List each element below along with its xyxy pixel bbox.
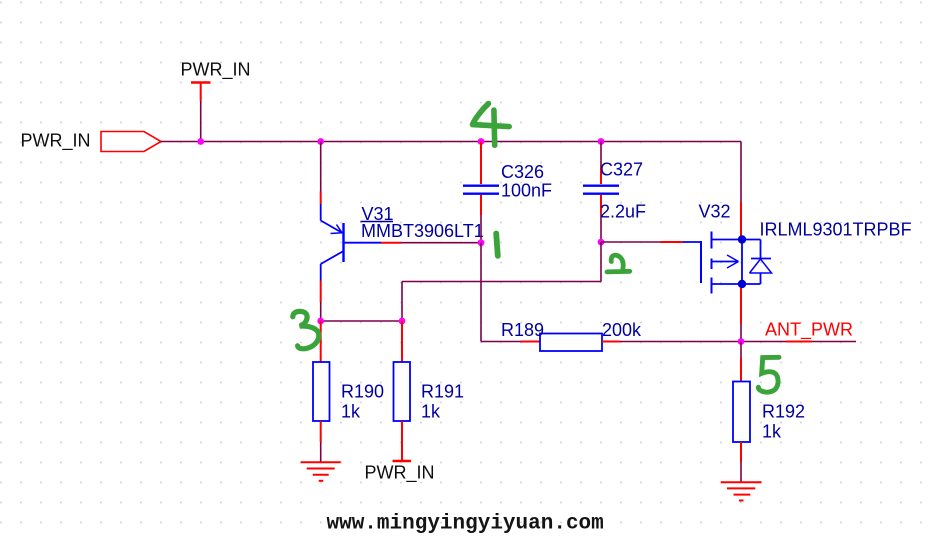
annotation digit 1: [496, 234, 498, 256]
node bus junction 3: [478, 138, 485, 145]
wire R192 to ground: [740, 462, 742, 482]
node B junction (C327 / gate / feedback): [598, 239, 605, 246]
resistor R192: [733, 342, 750, 463]
wire ANT_PWR net: [741, 341, 856, 343]
wire R190 to ground: [320, 442, 322, 462]
capacitor C327: [583, 142, 619, 243]
annotation digit 3: [293, 311, 319, 348]
wire node B down and left: [402, 242, 601, 321]
port PWR_IN (sheet entry, left): [21, 131, 162, 152]
wire bus to V31 emitter: [320, 142, 322, 205]
ground below R192: [721, 482, 762, 500]
wire node A down to R189: [480, 243, 482, 342]
svg-text:R192: R192: [762, 401, 805, 421]
svg-text:100nF: 100nF: [501, 181, 552, 201]
svg-text:2.2uF: 2.2uF: [600, 201, 646, 221]
node bus junction 2: [317, 138, 324, 145]
transistor V31: [321, 204, 381, 281]
svg-text:1k: 1k: [421, 401, 441, 421]
svg-text:V32: V32: [699, 201, 731, 221]
svg-text:PWR_IN: PWR_IN: [21, 131, 91, 152]
annotation digit 2: [607, 255, 630, 272]
svg-text:PWR_IN: PWR_IN: [181, 59, 251, 80]
svg-text:MMBT3906LT1: MMBT3906LT1: [361, 221, 484, 241]
svg-text:www.mingyingyiyuan.com: www.mingyingyiyuan.com: [327, 513, 604, 536]
svg-text:C327: C327: [600, 159, 643, 179]
power port PWR_IN (top): [181, 59, 251, 101]
svg-text:C326: C326: [501, 162, 544, 182]
svg-text:ANT_PWR: ANT_PWR: [765, 320, 853, 341]
wire collector node to R191 node: [321, 320, 402, 322]
svg-text:R191: R191: [421, 382, 464, 402]
V31 designator: [361, 204, 394, 224]
wire V32 source to ANT_PWR node: [740, 288, 742, 342]
node bus junction 1: [197, 138, 204, 145]
svg-text:1k: 1k: [341, 401, 361, 421]
wire R189 to ANT_PWR node: [620, 341, 741, 343]
resistor R189: [481, 334, 620, 352]
wire main bus: [161, 141, 741, 143]
ground below R190: [301, 462, 341, 481]
resistor R191: [394, 321, 411, 461]
V32 body diode: [742, 240, 772, 285]
node ANT_PWR junction: [738, 338, 745, 345]
wire bus to V32 drain: [740, 142, 742, 239]
power port PWR_IN (bottom): [365, 461, 435, 484]
wire V31 collector down: [320, 281, 322, 322]
node A junction (C326 / base / R189): [478, 239, 485, 246]
annotation digit 5: [758, 357, 779, 392]
wire V31 base to node A: [381, 242, 481, 244]
resistor R190: [313, 321, 330, 442]
svg-text:IRLML9301TRPBF: IRLML9301TRPBF: [760, 220, 912, 240]
node R191 junction: [399, 318, 406, 325]
capacitor C326: [463, 142, 499, 243]
svg-text:200k: 200k: [602, 320, 642, 340]
mosfet V32: [701, 232, 746, 294]
node collector junction: [317, 318, 324, 325]
wire power port to bus: [200, 101, 202, 142]
annotation digit 4: [473, 104, 510, 146]
node bus junction 4: [598, 138, 605, 145]
svg-text:1k: 1k: [762, 421, 782, 441]
svg-text:PWR_IN: PWR_IN: [365, 463, 435, 484]
svg-text:R189: R189: [501, 320, 544, 340]
wire node B to V32 gate: [601, 241, 701, 243]
svg-text:R190: R190: [341, 382, 384, 402]
